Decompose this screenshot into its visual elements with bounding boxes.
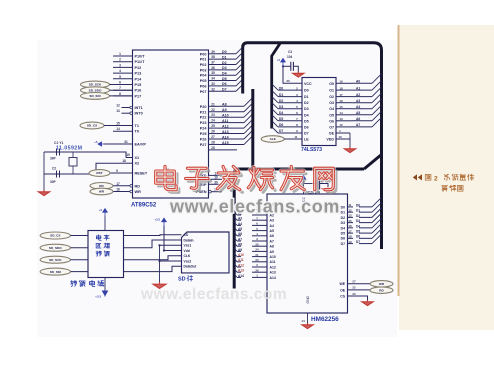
svg-text:A13: A13: [270, 271, 276, 275]
svg-text:P06: P06: [200, 84, 207, 88]
svg-text:VDD: VDD: [326, 138, 334, 142]
svg-text:O0: O0: [329, 82, 334, 86]
wire level shifter to SD DataIn: [124, 240, 182, 248]
U2 right pins P00-P07 data nets D0-D7: [200, 50, 236, 94]
wire level shifter bottom to 3.3V: [104, 278, 106, 292]
port SD_CS oval connector: [40, 232, 88, 239]
port SD_SDI oval connector: [81, 93, 133, 100]
svg-text:RD: RD: [379, 288, 384, 292]
U4 WE OE CS control pins: [340, 280, 370, 300]
svg-text:HM62256: HM62256: [311, 316, 339, 323]
svg-text:38: 38: [211, 55, 215, 59]
svg-text:www.elecfans.com: www.elecfans.com: [140, 286, 287, 303]
ground U3 OE VDD: [344, 147, 355, 153]
svg-text:24: 24: [211, 119, 215, 123]
wire diagonals A8-A15 into address bus: [244, 98, 253, 145]
svg-text:SD_CS: SD_CS: [50, 234, 60, 238]
svg-text:www.elecfans.com: www.elecfans.com: [169, 197, 340, 217]
ground near C20: [322, 187, 333, 193]
svg-text:D0: D0: [341, 205, 345, 209]
svg-text:P16: P16: [135, 89, 142, 93]
svg-text:A14: A14: [270, 276, 276, 280]
svg-text:SD_SDI: SD_SDI: [89, 94, 100, 98]
svg-text:7: 7: [119, 86, 121, 90]
svg-text:C2: C2: [52, 167, 56, 171]
svg-text:Vss2: Vss2: [184, 259, 192, 263]
svg-text:P07: P07: [200, 90, 207, 94]
port ALE oval to U3 LE pin: [261, 135, 302, 143]
svg-text:D7: D7: [279, 129, 283, 133]
svg-text:21: 21: [255, 253, 259, 257]
svg-text:D5: D5: [341, 232, 345, 236]
svg-text:O5: O5: [329, 113, 334, 117]
svg-text:17: 17: [116, 182, 120, 186]
svg-text:15: 15: [348, 219, 352, 223]
svg-text:39: 39: [211, 50, 215, 54]
svg-text:P00: P00: [200, 52, 207, 56]
bus horizontal lower trunk: [237, 168, 365, 171]
wire X1 to crystal net: [44, 152, 126, 158]
svg-text:Vdd: Vdd: [184, 249, 190, 253]
svg-text:SD_SDO: SD_SDO: [49, 246, 62, 250]
svg-text:CS: CS: [184, 233, 189, 237]
svg-text:27: 27: [211, 135, 215, 139]
svg-text:+5: +5: [99, 208, 103, 212]
svg-text:27: 27: [352, 280, 356, 284]
svg-text:18: 18: [348, 235, 352, 239]
svg-text:23: 23: [255, 258, 259, 262]
svg-text:26: 26: [211, 130, 215, 134]
svg-text:P02: P02: [200, 63, 207, 67]
svg-text:14: 14: [339, 111, 343, 115]
bus data D0-D7 thick trunk top: [243, 43, 382, 249]
svg-text:P13: P13: [135, 72, 142, 76]
svg-text:10: 10: [214, 175, 218, 179]
J1 pin labels: [184, 233, 198, 269]
svg-text:D2: D2: [341, 216, 345, 220]
svg-text:A9: A9: [270, 250, 274, 254]
orange divider line: [398, 25, 400, 296]
svg-text:16: 16: [348, 224, 352, 228]
svg-text:P10/T: P10/T: [135, 55, 146, 59]
svg-text:D4: D4: [341, 226, 345, 230]
svg-text:D1: D1: [304, 95, 309, 99]
svg-text:O1: O1: [329, 89, 334, 93]
IC U5 level shifter box: [88, 231, 124, 278]
wire crystal left vertical: [43, 152, 45, 190]
svg-text:D0: D0: [304, 89, 309, 93]
power VCC arrow above level shifter: [104, 217, 106, 231]
svg-text:3: 3: [119, 63, 121, 67]
power +3.3 arrow above SD card: [154, 218, 181, 251]
svg-text:P24: P24: [200, 127, 208, 131]
svg-text:31: 31: [124, 140, 128, 144]
svg-text:WE: WE: [340, 282, 346, 286]
svg-text:O7: O7: [329, 125, 334, 129]
U2 pins INT1 INT0 with bubbles: [116, 104, 143, 116]
U3 right pins A0-A7 nets and diagonals to bus: [336, 74, 382, 127]
svg-text:C3: C3: [288, 50, 292, 54]
U3 VCC pin 20 wire: [282, 65, 302, 83]
svg-text:13: 13: [116, 109, 120, 113]
svg-text:D4: D4: [279, 111, 283, 115]
svg-text:P15: P15: [135, 83, 142, 87]
svg-text:GND: GND: [306, 295, 310, 303]
svg-text:104: 104: [287, 55, 293, 59]
svg-text:P21: P21: [200, 110, 207, 114]
svg-text:OE: OE: [340, 288, 346, 292]
svg-text:15: 15: [339, 105, 343, 109]
svg-text:32: 32: [211, 87, 215, 91]
svg-text:24: 24: [255, 248, 259, 252]
svg-text:A12: A12: [270, 265, 276, 269]
wire X2 to crystal net: [44, 163, 120, 174]
svg-text:4: 4: [119, 69, 121, 73]
U3 right pin labels O0-O7 OE VDD: [326, 82, 334, 142]
svg-text:13: 13: [348, 214, 352, 218]
capacitor C3 104: [283, 50, 298, 72]
svg-text:ALE: ALE: [270, 137, 276, 141]
svg-text:16: 16: [116, 188, 120, 192]
svg-text:LE: LE: [304, 138, 309, 142]
capacitor C20 104: [308, 178, 328, 195]
crystal Y1 11.0592M: [54, 141, 83, 174]
svg-text:SD_SDI: SD_SDI: [50, 270, 61, 274]
svg-text:D1: D1: [341, 211, 345, 215]
ground near C3: [293, 72, 304, 78]
svg-text:D3: D3: [304, 107, 309, 111]
svg-text:P20: P20: [200, 105, 207, 109]
svg-text:30P: 30P: [50, 157, 57, 161]
svg-text:P14: P14: [135, 77, 143, 81]
svg-text:74LS573: 74LS573: [301, 147, 322, 153]
svg-text:A8: A8: [270, 245, 274, 249]
port SD_SDO oval connector: [40, 244, 88, 251]
U4 VCC pin top with arrow: [302, 184, 317, 204]
svg-text:D7: D7: [304, 132, 309, 136]
svg-text:1: 1: [119, 52, 121, 56]
svg-text:D6: D6: [341, 237, 345, 241]
svg-text:INT1: INT1: [135, 106, 143, 110]
U3 left pins D0-D7 wires and diagonals to bus: [272, 84, 302, 133]
svg-text:WR: WR: [135, 190, 142, 194]
port RD oval: [370, 287, 393, 293]
power VCC arrow above U3: [281, 59, 286, 67]
svg-text:O2: O2: [329, 95, 334, 99]
svg-text:T0: T0: [135, 130, 139, 134]
svg-text:D6: D6: [304, 125, 309, 129]
svg-text:19: 19: [339, 80, 343, 84]
svg-text:P23: P23: [200, 121, 207, 125]
bus branch to 74LS573 inputs: [272, 43, 281, 129]
svg-text:11: 11: [348, 203, 351, 207]
svg-text:P03: P03: [200, 68, 207, 72]
U5 level shifter text dianping pipei zhuanhuan: [96, 235, 110, 257]
svg-text:22: 22: [211, 108, 215, 112]
svg-text:D2: D2: [304, 101, 309, 105]
svg-text:D7: D7: [341, 242, 345, 246]
svg-text:SD_SDO: SD_SDO: [89, 88, 102, 92]
svg-text:34: 34: [211, 77, 215, 81]
svg-text:37: 37: [211, 61, 215, 65]
svg-text:17: 17: [348, 229, 352, 233]
svg-text:X1: X1: [135, 156, 140, 160]
svg-text:21: 21: [211, 102, 215, 106]
ground SD card: [153, 282, 166, 288]
svg-text:22: 22: [352, 286, 356, 290]
svg-text:25: 25: [255, 242, 259, 246]
port WR oval: [370, 281, 393, 287]
svg-text:A5: A5: [270, 229, 274, 233]
svg-text:RD: RD: [135, 184, 141, 188]
svg-text:RD: RD: [99, 184, 104, 188]
wire diagonals D0-D7 into data bus: [236, 47, 243, 91]
svg-text:DataOut: DataOut: [184, 265, 198, 269]
svg-text:D2: D2: [279, 99, 283, 103]
svg-text:Vss1: Vss1: [184, 244, 192, 248]
port SD_SDI oval connector: [40, 268, 88, 275]
svg-text:D5: D5: [279, 117, 283, 121]
svg-text:33: 33: [211, 82, 215, 86]
svg-text:D4: D4: [304, 113, 309, 117]
svg-text:D6: D6: [279, 123, 283, 127]
svg-text:30P: 30P: [50, 180, 57, 184]
port SD_SCK oval connector: [40, 256, 88, 263]
svg-text:CS: CS: [340, 294, 345, 298]
IC U4 HM62256 SRAM body: [267, 194, 348, 313]
watermark brand characters: [156, 166, 336, 192]
svg-text:12: 12: [348, 208, 352, 212]
svg-text:SD_CS: SD_CS: [87, 124, 97, 128]
U4 GND pin 14: [301, 295, 310, 323]
svg-text:12: 12: [116, 104, 120, 108]
svg-text:6: 6: [119, 81, 121, 85]
U3 left pin labels VCC D0-D7 LE: [304, 82, 312, 142]
port SD_SCK oval connector: [81, 81, 133, 88]
svg-text:+3.3: +3.3: [154, 218, 160, 222]
svg-text:WR: WR: [379, 282, 385, 286]
ground U4 CS: [362, 300, 373, 306]
svg-text:13: 13: [339, 117, 343, 121]
svg-text:P12: P12: [135, 66, 142, 70]
svg-text:19: 19: [348, 240, 352, 244]
svg-text:A4: A4: [270, 224, 274, 228]
svg-text:10: 10: [338, 135, 342, 139]
svg-text:19: 19: [126, 153, 130, 157]
svg-text:P17: P17: [135, 94, 142, 98]
svg-text:D3: D3: [279, 105, 283, 109]
svg-text:D3: D3: [341, 221, 345, 225]
U3 OE and VDD pins to ground: [336, 129, 350, 147]
port SD_SDO oval connector: [81, 87, 133, 94]
svg-text:14: 14: [301, 319, 305, 323]
U2 right pins TXD RXD ALE PSEN: [195, 171, 222, 194]
power VCC arrow above U4: [301, 176, 306, 184]
U4 right pins D0-D7 nets to data bus: [341, 197, 382, 246]
svg-text:25: 25: [211, 124, 215, 128]
svg-text:2: 2: [434, 176, 438, 183]
U2 pins RD WR with bubbles and ovals: [90, 182, 141, 195]
power +3.3 arrow below level shifter: [102, 291, 107, 297]
svg-text:P25: P25: [200, 132, 207, 136]
ground U4 GND: [302, 323, 313, 329]
port SD_CS oval connector: [80, 122, 133, 129]
svg-text:D5: D5: [304, 119, 309, 123]
svg-text:SD_SCK: SD_SCK: [89, 83, 102, 87]
wire level shifter to SD DataOut: [124, 266, 182, 271]
svg-text:P26: P26: [200, 138, 207, 142]
IC U2 AT89C52 MCU body: [133, 50, 209, 198]
svg-text:AT89C52: AT89C52: [131, 203, 157, 209]
capacitor C2 30P: [50, 167, 60, 185]
svg-text:CLK: CLK: [184, 254, 191, 258]
label SD ka below SD card: [178, 275, 193, 282]
right sidebar cream background: [399, 25, 494, 330]
svg-text:RST: RST: [96, 171, 102, 175]
svg-text:16: 16: [339, 99, 343, 103]
svg-text:A7: A7: [270, 239, 274, 243]
svg-text:O6: O6: [329, 119, 334, 123]
svg-text:8: 8: [119, 92, 121, 96]
svg-text:30: 30: [214, 180, 218, 184]
svg-text:P22: P22: [200, 116, 207, 120]
svg-text:P11/T: P11/T: [135, 60, 146, 64]
svg-text:INT0: INT0: [135, 112, 143, 116]
svg-text:20: 20: [286, 79, 290, 83]
svg-text:A10: A10: [270, 255, 276, 259]
IC U3 74LS573 latch body: [302, 78, 336, 146]
svg-text:EA/VP: EA/VP: [135, 143, 147, 147]
svg-text:2: 2: [119, 58, 121, 62]
svg-text:SD: SD: [178, 277, 186, 283]
svg-text:+3.3: +3.3: [95, 295, 101, 299]
svg-text:VCC: VCC: [304, 82, 312, 86]
watermark url text: [169, 197, 340, 217]
svg-text:P04: P04: [200, 74, 208, 78]
svg-text:WR: WR: [99, 190, 105, 194]
svg-text:17: 17: [339, 93, 343, 97]
svg-text:DataIn: DataIn: [184, 238, 194, 242]
svg-text:A6: A6: [270, 234, 274, 238]
bus address vertical to HM62256: [234, 169, 238, 289]
caption line2 yuanlitu: [442, 185, 463, 191]
svg-text:28: 28: [211, 146, 215, 150]
svg-text:D1: D1: [279, 93, 283, 97]
capacitor C1 30P: [50, 149, 60, 161]
svg-text:35: 35: [211, 71, 215, 75]
svg-text:9: 9: [116, 169, 118, 173]
U2 left pins P10-P17 with pin numbers 1-8: [113, 52, 145, 98]
U2 extra stub row pin 28: [209, 146, 238, 150]
svg-text:26: 26: [255, 268, 259, 272]
svg-text:12: 12: [339, 123, 343, 127]
wire level shifter to SD CS: [124, 234, 182, 237]
svg-text:P01: P01: [200, 58, 207, 62]
svg-text:O3: O3: [329, 101, 334, 105]
bus diagonal joining right trunk: [364, 155, 382, 170]
svg-text:11: 11: [294, 135, 298, 139]
bus address vertical from P2 ports: [251, 89, 254, 169]
U2 pin RESET with RST oval: [89, 169, 148, 177]
U4 left pins A0-A14 nets from address bus: [234, 201, 276, 280]
U2 pins T1 T0: [113, 122, 139, 134]
wire level shifter to SD CLK: [124, 256, 182, 260]
svg-text:14: 14: [116, 127, 120, 131]
U2 pin EA/VP with VCC arrow: [94, 140, 146, 147]
svg-text:T1: T1: [135, 124, 139, 128]
svg-text:A11: A11: [270, 260, 276, 264]
junction dot SD Vdd: [163, 249, 165, 251]
svg-text:OE: OE: [329, 132, 335, 136]
SD card connector J1 body: [182, 232, 230, 273]
svg-text:18: 18: [122, 159, 126, 163]
svg-text:X2: X2: [135, 162, 140, 166]
label zhuanhuan dianlu below level shifter: [71, 280, 104, 286]
U2 right pins P20-P27 address nets A8-A15: [200, 102, 244, 147]
U2 pins X1 X2: [120, 153, 139, 166]
svg-text:P27: P27: [200, 143, 207, 147]
svg-text:O4: O4: [329, 107, 334, 111]
svg-text:18: 18: [339, 86, 343, 90]
svg-text:RESET: RESET: [135, 172, 148, 176]
svg-text:15: 15: [116, 122, 120, 126]
svg-text:+5: +5: [277, 58, 281, 62]
svg-text:5: 5: [119, 75, 121, 79]
svg-text:P05: P05: [200, 79, 207, 83]
svg-text:36: 36: [211, 66, 215, 70]
svg-text:SD_SCK: SD_SCK: [49, 258, 62, 262]
caption arrows and figure 2 text: [413, 174, 474, 183]
svg-text:23: 23: [211, 113, 215, 117]
svg-text:20: 20: [352, 292, 356, 296]
svg-text:+5: +5: [94, 140, 98, 144]
wire SD Vss1 Vss2 to ground: [158, 244, 181, 282]
svg-text:A3: A3: [270, 219, 274, 223]
svg-text:28: 28: [211, 140, 215, 144]
svg-text:D0: D0: [279, 86, 283, 90]
ground crystal: [38, 190, 49, 196]
